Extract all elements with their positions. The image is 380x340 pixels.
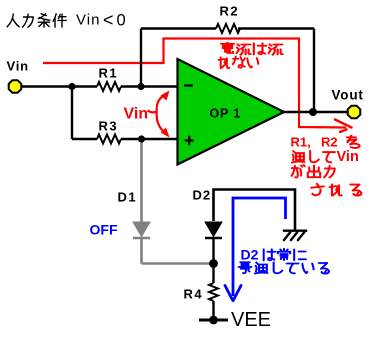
red annotation Vin brace xyxy=(148,94,169,136)
terminal Vout xyxy=(348,106,361,119)
wire feedback right vertical xyxy=(313,29,315,113)
red text される xyxy=(311,184,324,195)
wire R4 to VEE xyxy=(212,301,214,320)
wire feedback top to R2 xyxy=(141,27,216,29)
wire gray plus-node down xyxy=(140,140,143,222)
terminal Vin xyxy=(9,80,22,93)
svg-text:OFF: OFF xyxy=(90,222,118,238)
red annotation current path wire xyxy=(43,39,346,128)
svg-text:Vout: Vout xyxy=(332,88,364,103)
wire R1 to op-amp minus input xyxy=(121,85,178,87)
wire D2 top corner to ground xyxy=(214,190,296,231)
svg-text:D2: D2 xyxy=(193,188,212,203)
svg-text:R2: R2 xyxy=(220,4,240,19)
blue annotation D2 current arrow xyxy=(233,198,286,296)
svg-text:OP 1: OP 1 xyxy=(210,107,241,121)
wire R3 to op-amp plus input xyxy=(121,138,178,140)
red brace arrowhead top xyxy=(161,91,170,101)
wire Vin to R1 xyxy=(21,85,97,87)
title 入力条件 Vin<0 xyxy=(7,14,66,27)
red text 通して xyxy=(292,151,305,162)
svg-text:R3: R3 xyxy=(99,119,119,134)
junction node at Vin split xyxy=(68,83,75,90)
op-amp minus pin xyxy=(184,84,193,86)
junction node VEE xyxy=(209,316,218,325)
junction node plus input xyxy=(138,135,145,142)
svg-text:D1: D1 xyxy=(118,190,138,205)
diode D2 xyxy=(205,222,222,238)
blue text 導通している xyxy=(239,262,252,273)
wire feedback left vertical xyxy=(140,29,142,87)
wire gray below D1 xyxy=(140,238,143,264)
wire D2 to node xyxy=(212,238,214,283)
red text 電流は流れない xyxy=(219,43,283,69)
red text が出力 xyxy=(292,165,362,196)
wire R2 to right vertical xyxy=(238,27,314,29)
op-amp U1 xyxy=(178,59,285,165)
wire to R3 xyxy=(72,138,97,140)
VEE rail xyxy=(199,319,228,322)
junction node feedback tap xyxy=(137,83,144,90)
svg-text:Vin: Vin xyxy=(76,12,100,29)
svg-text:Vin: Vin xyxy=(337,149,359,165)
svg-text:<: < xyxy=(103,10,114,30)
diode D1 xyxy=(133,222,150,238)
resistor R1 xyxy=(97,82,121,91)
wire gray horizontal to node xyxy=(142,262,215,265)
wire left vertical branch xyxy=(71,87,73,140)
resistor R3 xyxy=(97,135,121,144)
ground xyxy=(284,231,306,240)
svg-text:R2: R2 xyxy=(321,135,338,150)
red annotation arrowhead xyxy=(335,120,352,133)
svg-text:R4: R4 xyxy=(184,287,204,302)
svg-text:D2: D2 xyxy=(241,247,259,263)
svg-text:R1: R1 xyxy=(99,66,119,81)
svg-text:Vin: Vin xyxy=(124,106,149,123)
svg-text:0: 0 xyxy=(117,12,126,30)
svg-text:R1,: R1, xyxy=(291,135,311,150)
svg-text:VEE: VEE xyxy=(231,309,271,331)
red brace arrowhead bottom xyxy=(161,128,170,138)
blue arrowhead xyxy=(225,286,241,301)
resistor R4 xyxy=(209,283,218,301)
wire op-amp output to Vout xyxy=(283,111,348,113)
junction node D1 D2 R4 xyxy=(209,259,218,268)
junction node output xyxy=(309,108,317,116)
svg-text:Vin: Vin xyxy=(7,59,29,74)
resistor R2 xyxy=(216,24,240,33)
op-amp plus pin xyxy=(185,136,195,145)
